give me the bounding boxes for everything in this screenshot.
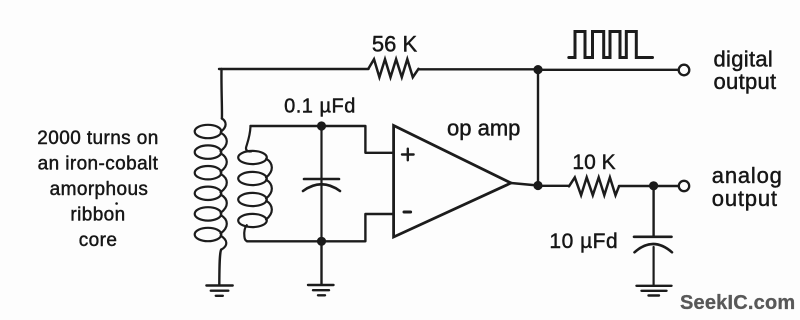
op-amp U1 [394,126,511,238]
wire bottom rail (secondary bottom to op-amp - input) [247,214,394,241]
node junction at digital branch [533,65,542,74]
svg-text:10 K: 10 K [572,151,615,174]
svg-text:digital: digital [714,47,774,72]
svg-text:an iron-cobalt: an iron-cobalt [38,154,159,175]
svg-text:10 µFd: 10 µFd [549,230,618,253]
ground under C2 [637,286,672,296]
svg-text:56 K: 56 K [372,32,418,57]
op-amp - input mark [404,211,411,214]
resistor R2 10K [569,177,619,195]
op-amp + input mark [402,149,414,161]
wire capacitor bottom to ground [320,241,322,284]
node junction op-amp output [533,181,542,190]
node junction capacitor bottom [317,237,326,246]
wire node to digital output terminal [538,69,678,71]
svg-text:analog: analog [712,163,783,188]
digital output terminal (open circle) [679,65,690,76]
inductor L1 primary winding [195,119,227,250]
svg-text:amorphous: amorphous [50,179,149,200]
wire 10K to analog node [619,185,654,187]
svg-text:SeekIC.com: SeekIC.com [680,292,795,314]
wire primary bottom lead [219,250,221,285]
square wave symbol [569,32,653,58]
wire transformer primary top lead [220,69,223,119]
label 0.1 uFd [284,96,356,118]
label 10 uFd [549,230,618,253]
svg-text:2000 turns on: 2000 turns on [37,128,158,149]
svg-text:ribbon: ribbon [70,205,125,226]
wire top horizontal from transformer to 56K [219,68,369,70]
resistor R1 56K [369,59,419,77]
svg-text:output: output [712,186,778,211]
node junction analog output [649,181,658,190]
label op amp [447,116,520,141]
wire 56K to digital output node [419,68,539,70]
ground under primary [206,286,232,296]
wire top rail (secondary top to op-amp + input) [251,126,394,153]
svg-text:op amp: op amp [447,116,520,141]
label 56K [372,32,418,57]
label analog output [712,163,783,211]
ground under capacitor C1 [308,285,334,295]
label digital output [714,47,777,95]
capacitor C1 0.1uFd [303,126,340,241]
svg-text:core: core [79,230,118,251]
note text: 2000 turns on an iron-cobalt amorphous ribbon core [37,128,158,251]
watermark SeekIC.com [680,292,795,314]
wire output node to 10K [538,185,569,187]
analog output terminal (open circle) [679,181,689,191]
svg-text:output: output [714,69,777,94]
inductor L2 secondary winding [238,126,272,241]
node junction capacitor top [317,121,326,130]
wire analog node to terminal [654,185,679,187]
capacitor C2 10uFd [634,237,672,285]
wire op-amp output to node [511,183,538,186]
wire analog node down to C2 [652,186,654,237]
wire feedback vertical from top node down to op-amp output [537,70,539,186]
svg-text:0.1 µFd: 0.1 µFd [284,96,356,118]
label 10K [572,151,615,174]
